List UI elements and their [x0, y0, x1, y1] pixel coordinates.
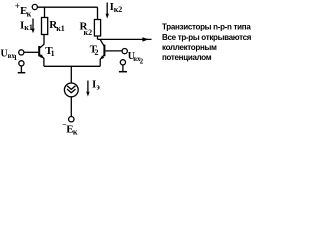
arrowhead T2 emitter — [100, 56, 104, 60]
terminal input2 common — [120, 60, 125, 65]
svg-text:1: 1 — [14, 54, 18, 62]
ground bar input2 — [119, 71, 127, 73]
svg-text:потенциалом: потенциалом — [162, 53, 212, 62]
svg-text:к: к — [73, 127, 78, 136]
svg-text:к: к — [27, 10, 32, 19]
svg-text:к1: к1 — [24, 23, 33, 32]
svg-text:к2: к2 — [84, 28, 93, 37]
wire top rail — [38, 6, 98, 8]
wire input1 common stem — [20, 66, 22, 72]
current source IE circle — [64, 83, 78, 97]
resistor RK1 — [42, 18, 48, 35]
current arrow IK1 — [32, 19, 34, 30]
current source chevron 1 — [67, 86, 75, 90]
wire output arrow line — [98, 38, 152, 40]
terminal Uvx2 — [122, 49, 127, 54]
wire drop to RK1 — [44, 7, 46, 17]
arrowhead T1 emitter — [39, 54, 43, 58]
terminal -Ek — [69, 117, 74, 122]
terminal Uvx1 — [19, 50, 24, 55]
svg-text:коллекторным: коллекторным — [162, 43, 217, 52]
svg-text:к1: к1 — [56, 24, 65, 33]
terminal input1 common — [19, 61, 24, 66]
arrowhead IK2 — [106, 14, 109, 19]
wire rail to current source — [70, 66, 72, 83]
arrowhead IE — [86, 92, 89, 97]
current source chevron 2 — [67, 89, 75, 93]
arrowhead output — [142, 37, 148, 41]
current arrow IE — [87, 81, 89, 93]
transistor T2 emitter — [100, 55, 104, 66]
svg-text:Все тр-ры открываются: Все тр-ры открываются — [162, 33, 252, 42]
current arrow IK2 — [106, 3, 108, 15]
wire RK1 to T1 collector — [40, 35, 44, 48]
resistor RK2 — [94, 20, 100, 37]
terminal +Ek — [32, 4, 37, 9]
transistor T1 base bar — [38, 46, 40, 56]
wire current source to -E — [70, 97, 72, 117]
svg-text:э: э — [96, 82, 100, 91]
svg-text:Транзисторы n-p-n типа: Транзисторы n-p-n типа — [162, 23, 251, 32]
transistor T1 emitter — [40, 55, 44, 67]
svg-text:2: 2 — [140, 57, 144, 65]
ground bar input1 — [18, 72, 26, 74]
transistor T2 collector — [100, 40, 104, 46]
wire T1 base — [24, 51, 38, 53]
arrowhead IK1 — [31, 29, 34, 34]
svg-text:к2: к2 — [114, 5, 123, 14]
svg-text:1: 1 — [51, 49, 55, 58]
wire emitter rail — [44, 65, 100, 67]
svg-text:2: 2 — [95, 48, 99, 57]
wire RK2 bottom junction — [97, 36, 99, 39]
wire drop to RK2 — [97, 7, 99, 19]
wire input2 common stem — [122, 65, 124, 71]
wire T2 base — [105, 50, 122, 52]
transistor T2 base bar — [103, 45, 105, 57]
